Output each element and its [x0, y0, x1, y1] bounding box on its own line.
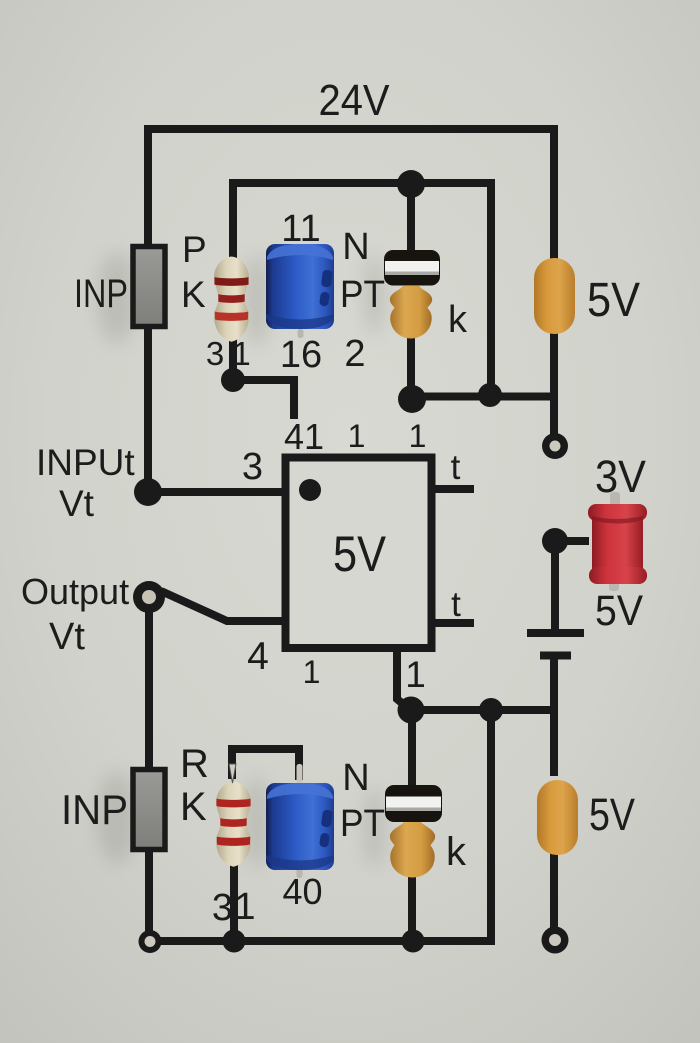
IC U1 pin-1 indicator dot	[299, 479, 321, 501]
wire left vertical from 24V rail to INPUT node	[144, 125, 152, 488]
svg-text:40: 40	[282, 871, 322, 912]
svg-text:t: t	[451, 448, 461, 487]
wire right vertical from 24V rail to inductor L1 top	[550, 125, 558, 259]
svg-text:INP: INP	[61, 786, 128, 833]
ferrite bead FB1 black body with stripe	[384, 250, 440, 286]
junction node bottom rail bead	[402, 930, 425, 953]
junction node bottom rail resistor	[223, 930, 246, 953]
wire IC bottom pin 1	[397, 648, 409, 709]
capacitor C1 blue body	[266, 244, 334, 338]
svg-text:41: 41	[284, 416, 324, 457]
resistor R2 top silver pin	[229, 764, 236, 783]
svg-text:Vt: Vt	[59, 483, 95, 524]
svg-text:INPUt: INPUt	[36, 442, 135, 483]
svg-text:PT: PT	[340, 274, 385, 316]
svg-text:k: k	[446, 830, 467, 874]
svg-text:1: 1	[409, 418, 427, 454]
IC U1 body	[286, 458, 432, 649]
inductor L1 orange capsule	[534, 258, 575, 334]
junction node capacitor branch	[542, 528, 568, 554]
svg-text:5V: 5V	[333, 526, 387, 582]
svg-text:Vt: Vt	[49, 616, 85, 658]
svg-text:11: 11	[281, 208, 320, 250]
inductor L2 orange capsule	[537, 780, 578, 855]
svg-text:2: 2	[344, 333, 365, 375]
junction node INPUT Vt	[134, 478, 162, 506]
junction node at inner rail	[397, 170, 425, 198]
ferrite bead FB2 tan bead	[390, 822, 435, 878]
svg-text:5V: 5V	[589, 789, 635, 840]
svg-text:Output: Output	[21, 571, 129, 612]
capacitor C3 bottom plate	[540, 652, 571, 660]
svg-text:k: k	[448, 299, 468, 341]
junction node right drop	[478, 383, 502, 407]
svg-text:INP: INP	[74, 272, 128, 316]
svg-text:4: 4	[247, 635, 269, 678]
wire lower horizontal node rail	[408, 706, 554, 714]
svg-text:N: N	[342, 757, 369, 799]
svg-text:3: 3	[212, 887, 233, 929]
svg-text:24V: 24V	[319, 76, 391, 125]
wire bottom rail	[160, 714, 491, 941]
svg-text:5V: 5V	[587, 274, 640, 327]
junction node lower rail right	[479, 698, 503, 722]
resistor R2 body	[216, 782, 251, 867]
wire inner top rail from resistor R1 top over C1 to right drop	[233, 183, 491, 394]
wire resistor R2 top bracket to C2	[232, 749, 299, 780]
wire resistor R2 bottom lead	[230, 864, 238, 937]
svg-text:K: K	[181, 274, 206, 315]
junction node lower rail left	[398, 697, 425, 724]
IC U1 right pin t upper	[431, 485, 474, 493]
wire ferrite bead FB1 top lead	[407, 188, 415, 252]
svg-text:PT: PT	[340, 803, 385, 845]
wire capacitor C3 bottom to inductor L2	[550, 659, 558, 776]
svg-text:R: R	[180, 742, 209, 786]
wire resistor R1 bottom lead	[229, 338, 237, 379]
svg-text:1: 1	[303, 654, 321, 690]
svg-text:3V: 3V	[595, 451, 646, 502]
svg-text:N: N	[342, 226, 369, 268]
wire pin 3 input	[152, 488, 286, 496]
svg-text:3: 3	[242, 446, 263, 488]
wire ferrite bead FB2 bottom lead	[408, 870, 416, 937]
wire from inductor L1 bottom to terminal	[550, 333, 558, 434]
terminal bottom left	[139, 930, 162, 953]
shadow under components	[97, 252, 384, 868]
terminal bottom right	[542, 927, 569, 954]
junction node R1 bottom	[221, 368, 245, 392]
wire inductor L2 bottom to terminal	[550, 852, 558, 928]
junction node FB1 bottom	[398, 385, 426, 413]
red capacitor C4	[588, 492, 647, 591]
wire pin 4 output diagonal	[161, 591, 286, 621]
svg-text:t: t	[451, 585, 461, 624]
resistor R1 body	[214, 257, 249, 342]
svg-text:K: K	[180, 785, 207, 829]
ferrite bead FB1 tan bead	[390, 286, 432, 339]
ferrite bead FB2 black body with stripe	[385, 785, 442, 822]
capacitor C2 blue body	[266, 764, 334, 878]
svg-text:1: 1	[405, 654, 426, 695]
terminal 5V top right	[542, 433, 568, 459]
svg-text:16: 16	[280, 334, 322, 376]
wire stub to pin 41	[233, 376, 294, 419]
component INP box 1	[133, 247, 165, 327]
svg-text:P: P	[182, 229, 207, 270]
terminal Output Vt	[133, 581, 165, 613]
IC U1 right pin t lower	[431, 619, 474, 627]
wire output vertical to INP2	[145, 611, 153, 768]
component INP box 2	[133, 770, 165, 850]
svg-text:1: 1	[234, 886, 255, 928]
wire node to red capacitor C4	[555, 537, 589, 545]
svg-text:3: 3	[206, 335, 224, 372]
wire 24V top rail	[148, 125, 554, 133]
svg-text:5V: 5V	[595, 587, 643, 635]
wire ferrite bead FB2 top lead	[408, 714, 416, 788]
wire node down to capacitor C3 top plate	[551, 541, 559, 629]
capacitor C3 top plate	[527, 629, 584, 637]
svg-text:1: 1	[348, 418, 366, 454]
svg-text:1: 1	[232, 335, 250, 372]
wire mid horizontal to 5V branch	[408, 393, 554, 401]
wire INP2 bottom to ground terminal	[145, 847, 153, 931]
wire ferrite bead FB1 bottom lead	[407, 333, 415, 398]
